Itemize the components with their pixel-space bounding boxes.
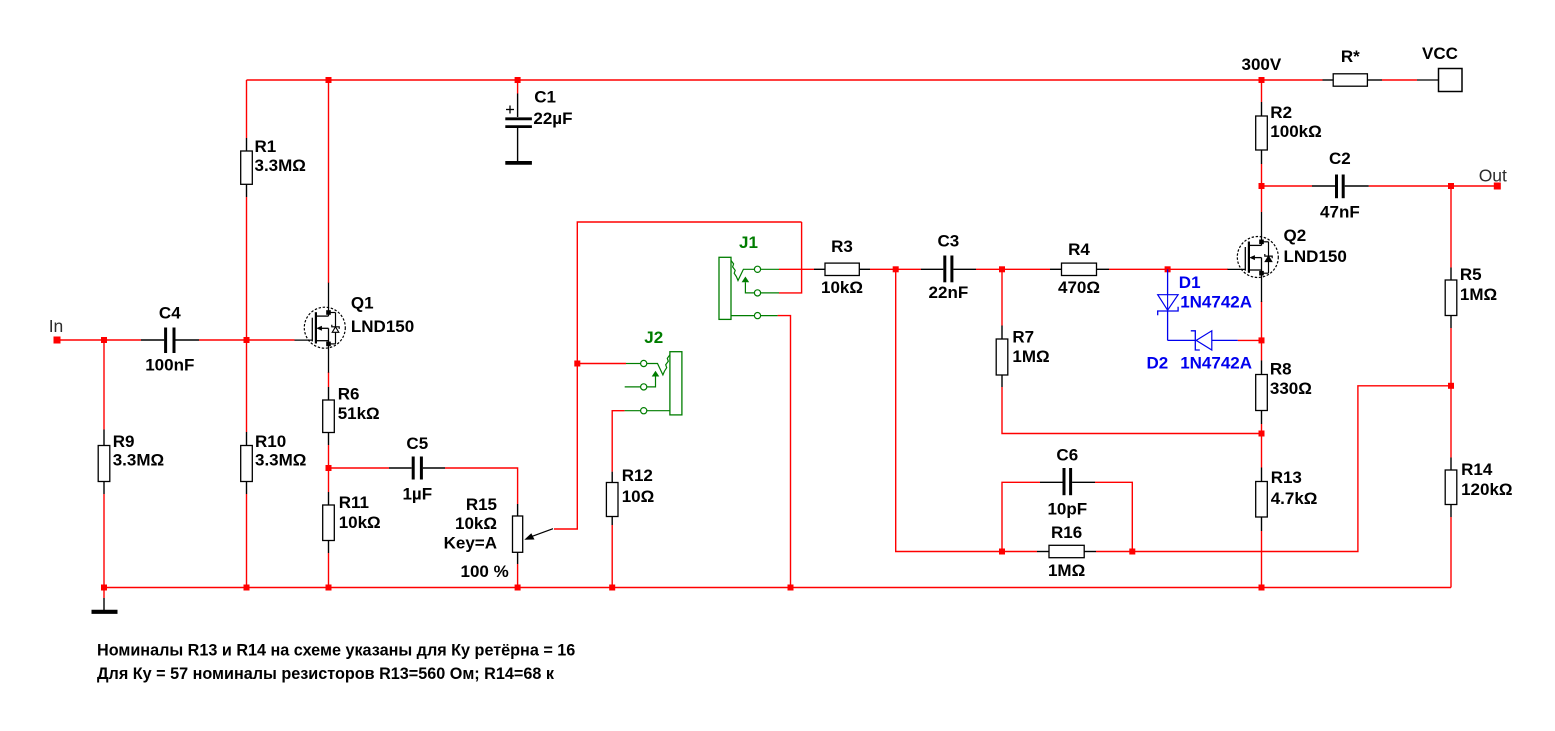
svg-text:1MΩ: 1MΩ	[1460, 285, 1497, 304]
resistor R8 330ohm	[1256, 360, 1312, 425]
svg-text:4.7kΩ: 4.7kΩ	[1271, 489, 1318, 508]
svg-text:100 %: 100 %	[460, 562, 508, 581]
svg-text:10kΩ: 10kΩ	[455, 514, 497, 533]
svg-text:1N4742A: 1N4742A	[1180, 354, 1252, 373]
wire R2 to Q2 drain	[1261, 164, 1263, 212]
wire D2 to Q2 source node	[1238, 339, 1262, 341]
wire In to C4	[57, 339, 141, 341]
wire C4 to Q1 gate	[199, 339, 295, 341]
svg-text:R12: R12	[622, 466, 653, 485]
connector J1 (switched jack)	[719, 233, 779, 319]
svg-text:3.3MΩ: 3.3MΩ	[255, 156, 306, 175]
svg-text:10pF: 10pF	[1047, 500, 1087, 519]
svg-text:R1: R1	[255, 137, 277, 156]
potentiometer R15 10kohm Key=A 100%	[444, 495, 553, 581]
junction ground rail at R12	[609, 585, 615, 591]
wire R13 bottom	[1261, 531, 1263, 588]
svg-text:D2: D2	[1147, 354, 1169, 373]
svg-text:C1: C1	[534, 88, 556, 107]
junction 300V node	[1259, 77, 1265, 83]
wire R3-C3 node down to C6 net	[896, 269, 1037, 551]
resistor R9 3.3Mohm	[98, 430, 164, 495]
resistor R16 1Mohm	[1037, 523, 1096, 580]
junction ground rail at R13	[1259, 585, 1265, 591]
svg-text:R7: R7	[1012, 328, 1034, 347]
wire ground rail	[104, 587, 1451, 589]
svg-text:R3: R3	[831, 237, 853, 256]
wire node A to C5	[329, 467, 390, 469]
wire R3 to C3	[870, 268, 921, 270]
resistor R5 1Mohm	[1445, 265, 1497, 328]
ground symbol	[92, 588, 118, 612]
svg-text:C3: C3	[938, 232, 960, 251]
svg-text:R*: R*	[1341, 47, 1360, 66]
svg-text:R6: R6	[338, 385, 360, 404]
svg-text:3.3MΩ: 3.3MΩ	[255, 451, 306, 470]
svg-text:22nF: 22nF	[929, 283, 969, 302]
wire Q2 source to R8	[1261, 301, 1263, 361]
wire Q2 drain to C2	[1262, 185, 1313, 187]
junction ground rail at R9	[101, 585, 107, 591]
junction ground rail at J1 sleeve	[788, 585, 794, 591]
svg-text:C6: C6	[1056, 446, 1078, 465]
wire R* to VCC	[1382, 79, 1417, 81]
junction R8 / R13 / R7 node	[1259, 431, 1265, 437]
wire top 300V rail	[247, 79, 1323, 81]
wire J1 sleeve drop	[778, 316, 791, 588]
wire R7 top	[1001, 269, 1003, 325]
svg-text:R15: R15	[466, 495, 497, 514]
svg-text:R5: R5	[1460, 265, 1482, 284]
svg-text:Out: Out	[1479, 166, 1507, 186]
wire R9 top	[103, 340, 105, 430]
wire R7 bottom to source divider	[1002, 387, 1262, 434]
svg-text:470Ω: 470Ω	[1058, 278, 1100, 297]
junction Q1 drain / 300V rail	[326, 77, 332, 83]
svg-text:VCC: VCC	[1422, 44, 1458, 63]
wire C2 to Out	[1369, 185, 1498, 187]
svg-text:1µF: 1µF	[402, 485, 432, 504]
node Out terminal	[1494, 183, 1501, 190]
svg-text:LND150: LND150	[1284, 247, 1347, 266]
svg-text:J1: J1	[739, 233, 758, 252]
svg-text:3.3MΩ: 3.3MΩ	[113, 451, 164, 470]
svg-text:R13: R13	[1271, 468, 1302, 487]
svg-text:D1: D1	[1179, 273, 1201, 292]
junction J2 tip / wiper line	[574, 361, 580, 367]
junction C6-R16 left node	[999, 549, 1005, 555]
wire C6 right leg	[1095, 482, 1132, 551]
wire R16 to R14 top	[1096, 386, 1451, 552]
svg-text:100nF: 100nF	[145, 356, 194, 375]
svg-text:330Ω: 330Ω	[1270, 379, 1312, 398]
resistor R7 1Mohm	[996, 326, 1049, 388]
wire J2 sleeve to R12	[612, 411, 624, 472]
wire C1 stem	[517, 80, 519, 94]
wire R9 bottom	[103, 494, 105, 588]
svg-text:Q1: Q1	[351, 294, 374, 313]
junction R6-R11 / C5	[326, 465, 332, 471]
wire R1 top	[246, 80, 248, 138]
junction C3-R4 / R7 node	[999, 266, 1005, 272]
svg-text:C5: C5	[406, 434, 428, 453]
resistor R6 51kohm	[323, 385, 380, 446]
svg-text:LND150: LND150	[351, 317, 414, 336]
svg-text:C2: C2	[1329, 149, 1351, 168]
svg-text:In: In	[49, 316, 64, 336]
svg-text:R2: R2	[1270, 103, 1292, 122]
capacitor C2 47nF	[1312, 149, 1369, 222]
wire J2 tip link	[577, 363, 626, 365]
svg-text:Номиналы R13 и R14 на схеме ук: Номиналы R13 и R14 на схеме указаны для …	[97, 642, 575, 660]
svg-text:22µF: 22µF	[533, 109, 572, 128]
wire R15 bottom	[517, 564, 519, 588]
capacitor C1 22uF (polarized, to ground)	[505, 88, 572, 163]
resistor R12 10ohm	[606, 466, 654, 525]
junction R3-C3 node	[893, 266, 899, 272]
resistor R1 3.3Mohm	[241, 137, 306, 197]
wire C5 to R15	[445, 468, 518, 504]
svg-text:R14: R14	[1461, 460, 1493, 479]
wire R5 bottom	[1450, 328, 1452, 386]
capacitor C6 10pF	[1040, 446, 1095, 519]
wire C6 left leg	[1002, 482, 1040, 551]
wire R14 bottom	[1450, 517, 1452, 588]
junction R4 / D1 / Q2 gate node	[1165, 266, 1171, 272]
wire R12 bottom	[611, 525, 613, 588]
capacitor C5 1uF	[389, 434, 445, 504]
resistor R11 10kohm	[323, 492, 381, 553]
wire R5 top	[1450, 186, 1452, 268]
svg-text:R9: R9	[113, 432, 135, 451]
wire R4 to Q2 gate	[1109, 268, 1228, 270]
resistor R*	[1323, 47, 1383, 86]
resistor R4 470ohm	[1050, 240, 1109, 297]
wire J1 tip to R3	[779, 268, 814, 270]
svg-text:J2: J2	[644, 328, 663, 347]
junction ground rail at R10	[244, 585, 250, 591]
wire R11 bottom	[328, 553, 330, 588]
zener diode D1 1N4742A	[1158, 269, 1252, 340]
svg-text:R8: R8	[1270, 360, 1292, 379]
wire R10 top	[246, 340, 248, 432]
svg-text:R4: R4	[1068, 240, 1090, 259]
svg-text:R16: R16	[1051, 523, 1082, 542]
resistor R3 10kohm	[814, 237, 870, 297]
junction Q2 source / D2 / R8 node	[1259, 337, 1265, 343]
wire 300V to R2	[1261, 80, 1263, 102]
svg-text:10kΩ: 10kΩ	[821, 278, 863, 297]
resistor R10 3.3Mohm	[241, 432, 307, 494]
resistor R13 4.7kohm	[1256, 468, 1318, 532]
transistor Q2 LND150 (depletion MOSFET)	[1228, 212, 1347, 302]
capacitor C4 100nF	[141, 304, 199, 375]
junction ground rail at R11	[326, 585, 332, 591]
resistor R14 120kohm	[1445, 458, 1512, 518]
svg-text:R11: R11	[339, 493, 369, 512]
node In terminal	[54, 337, 61, 344]
svg-text:47nF: 47nF	[1320, 203, 1360, 222]
wire R14 top	[1450, 386, 1452, 458]
svg-text:120kΩ: 120kΩ	[1461, 480, 1512, 499]
wire R10 bottom	[246, 494, 248, 588]
wire Q1 drain	[328, 80, 330, 283]
svg-text:Key=A: Key=A	[444, 534, 497, 553]
svg-text:100kΩ: 100kΩ	[1270, 122, 1321, 141]
svg-text:1MΩ: 1MΩ	[1012, 347, 1049, 366]
junction R9 / In line	[101, 337, 107, 343]
svg-text:1MΩ: 1MΩ	[1048, 561, 1085, 580]
junction C6-R16 right node	[1129, 549, 1135, 555]
wire R8 to R13	[1261, 424, 1263, 468]
svg-text:10kΩ: 10kΩ	[339, 513, 381, 532]
svg-text:R10: R10	[255, 432, 286, 451]
svg-text:Для Ку = 57 номиналы резисторо: Для Ку = 57 номиналы резисторов R13=560 …	[97, 665, 555, 683]
svg-text:51kΩ: 51kΩ	[338, 404, 380, 423]
wire R1 bottom to In-line	[246, 197, 248, 340]
transistor Q1 LND150 (depletion MOSFET)	[295, 283, 415, 373]
junction C2 / R5 / Out node	[1448, 183, 1454, 189]
junction R2 / C2 node	[1259, 183, 1265, 189]
capacitor C3 22nF	[921, 232, 976, 303]
wire R6 to R11 node	[328, 445, 330, 492]
junction R5 / R14 / feedback node	[1448, 383, 1454, 389]
svg-text:10Ω: 10Ω	[622, 487, 655, 506]
svg-text:Q2: Q2	[1284, 226, 1307, 245]
svg-text:300V: 300V	[1242, 55, 1282, 74]
power symbol VCC	[1417, 44, 1462, 92]
junction ground rail at R15	[515, 585, 521, 591]
junction C1 / 300V rail	[515, 77, 521, 83]
wire J1 ring drop	[779, 222, 802, 293]
connector J2 (switched jack)	[625, 328, 682, 415]
wire C3 to R4	[976, 268, 1050, 270]
zener diode D2 1N4742A	[1147, 331, 1253, 373]
svg-text:1N4742A: 1N4742A	[1180, 293, 1252, 312]
wire J1 ring to R15 wiper	[554, 222, 802, 529]
resistor R2 100kohm	[1256, 102, 1322, 164]
junction R1-R10 / In line	[244, 337, 250, 343]
wire Q1 source to R6	[328, 372, 330, 387]
svg-text:C4: C4	[159, 304, 181, 323]
